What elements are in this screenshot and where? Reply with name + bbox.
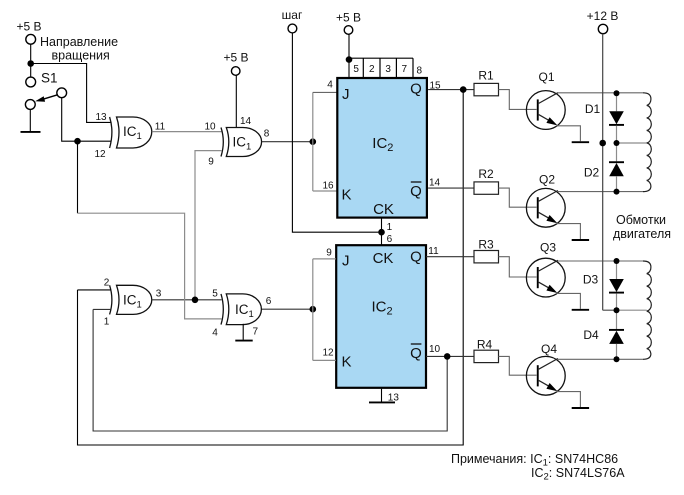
svg-text:R3: R3: [478, 238, 494, 252]
svg-text:Обмотки: Обмотки: [616, 213, 666, 227]
svg-text:1: 1: [104, 317, 110, 328]
svg-text:7: 7: [402, 64, 408, 75]
svg-text:K: K: [342, 354, 352, 371]
svg-text:14: 14: [240, 116, 252, 127]
svg-text:+5 В: +5 В: [336, 11, 361, 25]
svg-text:6: 6: [387, 234, 393, 245]
svg-text:+5 В: +5 В: [16, 20, 41, 34]
svg-text:8: 8: [417, 66, 423, 77]
svg-text:14: 14: [429, 178, 441, 189]
svg-text:10: 10: [204, 122, 216, 133]
svg-text:Q4: Q4: [541, 342, 557, 356]
svg-text:Q1: Q1: [538, 70, 554, 84]
svg-text:Q: Q: [410, 80, 422, 97]
svg-text:13: 13: [95, 112, 107, 123]
svg-text:4: 4: [212, 328, 218, 339]
svg-text:12: 12: [94, 149, 106, 160]
svg-text:D1: D1: [585, 102, 601, 116]
svg-text:Направление: Направление: [40, 35, 118, 49]
svg-text:3: 3: [156, 289, 162, 300]
svg-text:CK: CK: [373, 201, 394, 218]
svg-text:9: 9: [326, 248, 332, 259]
svg-text:вращения: вращения: [52, 49, 110, 63]
svg-text:D2: D2: [584, 166, 600, 180]
svg-text:CK: CK: [373, 250, 394, 267]
svg-text:двигателя: двигателя: [613, 227, 671, 241]
svg-text:Q: Q: [410, 249, 422, 266]
svg-text:11: 11: [428, 246, 439, 257]
svg-text:+12 В: +12 В: [587, 9, 619, 23]
svg-text:3: 3: [385, 64, 391, 75]
svg-text:J: J: [342, 253, 350, 270]
svg-text:2: 2: [369, 64, 375, 75]
svg-text:8: 8: [264, 129, 270, 140]
svg-text:D3: D3: [583, 273, 599, 287]
svg-text:10: 10: [429, 344, 441, 355]
svg-text:6: 6: [266, 296, 272, 307]
svg-text:11: 11: [155, 122, 166, 133]
svg-text:D4: D4: [583, 328, 599, 342]
svg-text:1: 1: [387, 222, 393, 233]
svg-text:шаг: шаг: [282, 8, 303, 22]
svg-text:5: 5: [353, 64, 359, 75]
svg-text:2: 2: [104, 278, 110, 289]
svg-text:Q2: Q2: [539, 173, 555, 187]
svg-text:R1: R1: [478, 69, 494, 83]
svg-text:9: 9: [208, 157, 214, 168]
svg-text:S1: S1: [41, 71, 58, 86]
svg-text:4: 4: [327, 80, 333, 91]
svg-text:K: K: [342, 187, 352, 204]
svg-text:J: J: [342, 86, 350, 103]
svg-text:Q: Q: [410, 345, 422, 362]
svg-text:5: 5: [212, 289, 218, 300]
svg-text:R4: R4: [477, 338, 493, 352]
svg-text:7: 7: [253, 327, 259, 338]
svg-text:+5 В: +5 В: [223, 51, 248, 65]
svg-text:Q: Q: [410, 183, 422, 200]
svg-text:Q3: Q3: [540, 241, 556, 255]
svg-text:16: 16: [322, 181, 334, 192]
svg-text:13: 13: [388, 393, 400, 404]
svg-text:R2: R2: [478, 167, 494, 181]
svg-text:12: 12: [322, 348, 334, 359]
